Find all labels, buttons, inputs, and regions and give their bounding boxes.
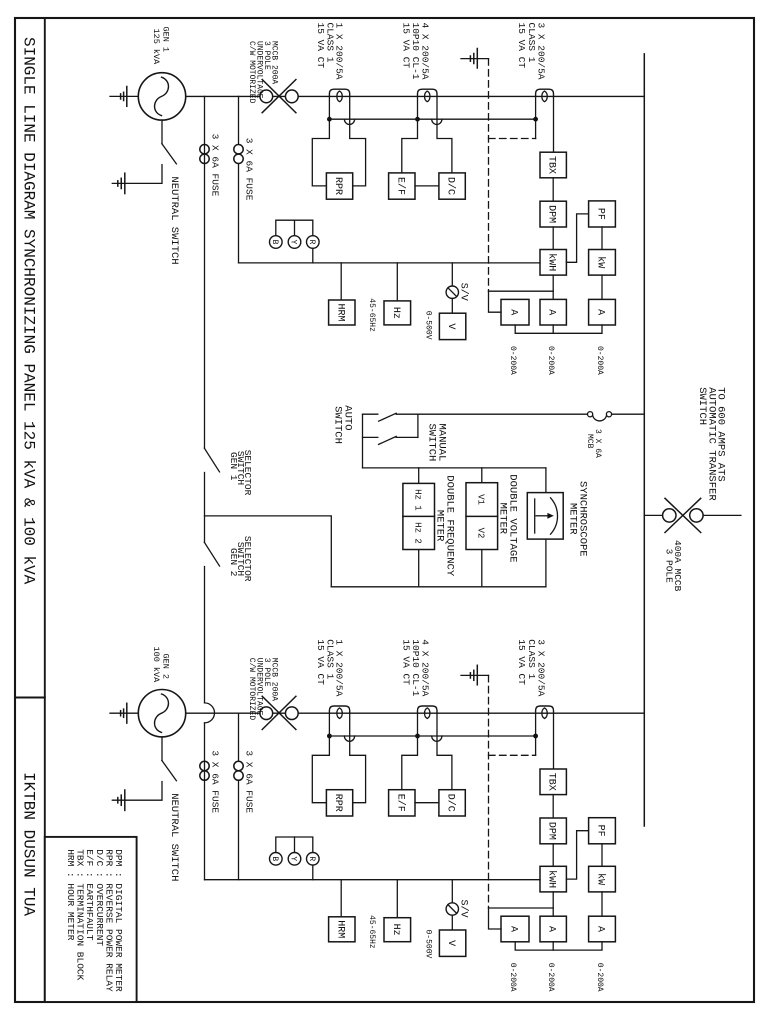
svg-text:SWITCH: SWITCH (696, 387, 708, 425)
ground (generator body earth) (126, 703, 128, 723)
svg-text:Hz: Hz (390, 924, 401, 936)
svg-text:3 X 6A FUSE: 3 X 6A FUSE (243, 750, 254, 813)
wire: synchroscope stems (545, 468, 547, 493)
wire: CT1 right secondary drop (350, 713, 366, 803)
double frequency meter (403, 483, 435, 549)
svg-text:3 X 6A FUSE: 3 X 6A FUSE (210, 134, 221, 197)
wire DPM-kWH (552, 844, 554, 867)
ground (metering earth, dashed link) (461, 674, 489, 676)
svg-text:15 VA CT: 15 VA CT (400, 639, 411, 685)
wire: generator main feeder (186, 95, 645, 97)
svg-text:PF: PF (595, 825, 606, 837)
svg-text:C/W MOTORIZED: C/W MOTORIZED (247, 41, 256, 104)
CT2 4X200/5A (GEN 1) (418, 89, 438, 96)
wire: CT2 left secondary drop (402, 96, 418, 172)
svg-text:0-200A: 0-200A (595, 346, 604, 375)
svg-text:0-200A: 0-200A (546, 963, 555, 992)
ground (neutral earth) (124, 790, 126, 810)
relay D/C (439, 173, 465, 199)
wire: dashed earth riser (488, 59, 490, 292)
wire: bus to 400A MCCB (644, 514, 662, 516)
lamp Y (288, 853, 301, 866)
auto switch contact (363, 413, 378, 415)
neutral switch blade (162, 760, 177, 780)
wire: ammeter common bus (515, 325, 602, 333)
double voltage meter (466, 483, 498, 550)
main bus (643, 54, 645, 826)
svg-text:IKTBN DUSUN TUA: IKTBN DUSUN TUA (19, 772, 37, 916)
relay RPR (326, 173, 352, 199)
wire: generator earth stem (110, 95, 138, 97)
meter kW (589, 866, 616, 892)
frequency meter Hz (396, 263, 398, 301)
svg-text:C/W MOTORIZED: C/W MOTORIZED (247, 658, 256, 721)
wire: sync bottom bus (331, 586, 546, 588)
wire: lamp feed (312, 865, 314, 880)
svg-text:Hz: Hz (390, 307, 401, 319)
svg-text:NEUTRAL SWITCH: NEUTRAL SWITCH (168, 793, 180, 881)
svg-text:METER: METER (434, 510, 446, 542)
wire: CT1 left secondary drop (312, 713, 329, 803)
svg-text:RPR: RPR (332, 794, 343, 812)
svg-text:D/C: D/C (445, 177, 457, 195)
generator GEN 2 circle (138, 690, 185, 737)
wire: generator earth stem (110, 712, 138, 714)
wire: dashed earth riser (488, 675, 490, 908)
wire: CT2 left secondary drop (402, 713, 418, 790)
neutral switch blade (162, 144, 177, 164)
svg-text:R: R (307, 240, 316, 245)
ammeter A1 (501, 916, 529, 942)
svg-text:PF: PF (595, 208, 606, 220)
svg-text:3 X 6A FUSE: 3 X 6A FUSE (210, 750, 221, 813)
svg-text:A: A (546, 926, 557, 932)
svg-text:V: V (445, 323, 456, 329)
wire: auto line to MCB (396, 413, 587, 415)
junction CT1 secondary (327, 734, 332, 739)
svg-text:125 kVA: 125 kVA (151, 29, 161, 66)
wire: neutral drop from generator (161, 120, 163, 144)
wire: manual jog (417, 414, 419, 437)
svg-text:DPM: DPM (546, 205, 557, 223)
wire: lamp header (276, 837, 313, 853)
wire: earth line to ammeters (489, 907, 554, 909)
svg-text:METER: METER (496, 503, 508, 535)
svg-text:0-200A: 0-200A (508, 963, 517, 992)
svg-text:D/C: D/C (445, 794, 457, 812)
svg-text:kWH: kWH (546, 870, 558, 888)
wire: lamp feed (312, 248, 314, 263)
wire: riser through GEN2 fuses (204, 723, 206, 880)
svg-text:A: A (508, 309, 519, 315)
wire TBX-DPM (552, 795, 554, 818)
wire: fused branch 2 (238, 713, 240, 880)
svg-text:V2: V2 (476, 528, 486, 539)
wire: sync top bus (363, 467, 546, 469)
wire: switch left leg (362, 414, 364, 468)
termination block TBX (540, 769, 566, 795)
wire kWH-A2 (552, 892, 554, 916)
fuse 3X6A (branch 2) (234, 145, 243, 154)
ammeter A1 (501, 299, 529, 325)
wire TBX-DPM (552, 178, 554, 201)
wire: CT secondary bus (329, 735, 535, 737)
wire kW-A3 (601, 892, 603, 916)
CT1 1X200/5A (GEN 2) (329, 706, 349, 713)
svg-text:R: R (307, 856, 316, 861)
CT1 1X200/5A (GEN 1) (329, 89, 349, 96)
selector switch GEN 1 blade (204, 448, 219, 472)
svg-text:S/V: S/V (458, 283, 470, 301)
meter DPM (540, 818, 566, 844)
CT2 4X200/5A (GEN 2) (418, 706, 438, 713)
wire: CT1 right secondary drop (350, 96, 366, 185)
svg-text:kWH: kWH (546, 253, 558, 271)
svg-text:A: A (546, 309, 557, 315)
svg-text:45-65Hz: 45-65Hz (367, 915, 376, 949)
synchroscope meter (527, 493, 563, 539)
relay D/C (439, 790, 465, 816)
lamp Y (288, 236, 301, 249)
wire: earth line to ammeters (489, 290, 554, 292)
svg-text:B: B (270, 240, 279, 245)
svg-text:E/F: E/F (394, 794, 406, 812)
breaker MCCB 200A (GEN 1) (260, 90, 273, 103)
svg-text:MCB: MCB (585, 434, 594, 449)
wire: DV meter stems (481, 468, 483, 483)
svg-text:V: V (445, 940, 456, 946)
junction CT2 secondary (415, 734, 420, 739)
ground (generator body earth) (126, 87, 128, 107)
svg-text:SWITCH: SWITCH (426, 424, 438, 462)
meter PF (589, 818, 616, 844)
wire: neutral switch to earth (112, 782, 162, 801)
relay E/F (389, 173, 415, 199)
svg-text:kW: kW (595, 873, 607, 885)
svg-text:0-200A: 0-200A (595, 963, 604, 992)
wire: selector riser down to GEN2 (204, 567, 206, 703)
svg-text:HRM: HRM (334, 920, 345, 938)
svg-text:45-65Hz: 45-65Hz (367, 298, 376, 332)
svg-text:B: B (270, 856, 279, 861)
svg-text:DPM: DPM (546, 822, 557, 840)
title strip line (44, 18, 46, 1002)
wire PF-kW (601, 227, 603, 250)
ammeter A3 (589, 916, 616, 942)
wire: DF meter stems (418, 468, 420, 484)
svg-text:S/V: S/V (458, 900, 470, 918)
svg-text:Hz 2: Hz 2 (413, 522, 423, 544)
wire: E/F to D/C link (415, 185, 439, 187)
svg-text:15 VA CT: 15 VA CT (315, 23, 326, 69)
voltmeter V (451, 915, 453, 930)
svg-text:3 POLE: 3 POLE (663, 549, 674, 584)
meter kW (589, 250, 616, 276)
ammeter A3 (589, 299, 616, 325)
meter DPM (540, 201, 566, 227)
breaker 400A MCCB 3 POLE (663, 509, 676, 522)
svg-text:Hz 1: Hz 1 (413, 489, 423, 511)
wire: CT3 left drop (535, 96, 537, 138)
svg-text:SINGLE LINE DIAGRAM SYNCHRONIZ: SINGLE LINE DIAGRAM SYNCHRONIZING PANEL … (19, 37, 37, 585)
selector switch S/V (451, 263, 453, 286)
svg-text:15 VA CT: 15 VA CT (516, 23, 527, 69)
wire: CT1 left secondary drop (312, 96, 329, 185)
junction CT1 secondary (327, 117, 332, 122)
fuse 3X6A (branch 1) (200, 761, 209, 770)
wire kW-A3 (601, 275, 603, 299)
CT3 3X200/5A (GEN 1) (536, 89, 554, 96)
meter kWH (540, 250, 566, 276)
wire PF-kW (601, 844, 603, 867)
svg-text:V1: V1 (476, 494, 486, 505)
svg-text:A: A (508, 926, 519, 932)
svg-text:TBX: TBX (546, 773, 557, 791)
legend box (45, 837, 137, 1002)
relay RPR (326, 790, 352, 816)
generator GEN 1 circle (138, 73, 185, 120)
svg-text:RPR: RPR (332, 177, 343, 195)
wire: MCB to bus (612, 413, 645, 415)
junction CT3 secondary (533, 117, 538, 122)
svg-text:100 kVA: 100 kVA (151, 647, 161, 684)
meter kWH (540, 866, 566, 892)
wire: CT3 to TBX (553, 96, 555, 152)
lamp R (307, 236, 320, 249)
svg-text:15 VA CT: 15 VA CT (516, 639, 527, 685)
wire: lamp header (276, 220, 313, 236)
wire DPM-kWH (552, 227, 554, 250)
wire: CT2 right secondary drop (437, 713, 452, 790)
wire: neutral drop from generator (161, 737, 163, 761)
wire: CT secondary bus (329, 118, 535, 120)
wire kWH-A2 (552, 275, 554, 299)
CT3 3X200/5A (GEN 2) (536, 706, 554, 713)
ammeter A2 (540, 916, 566, 942)
termination block TBX (540, 152, 566, 178)
wire: CT3 left drop (535, 713, 537, 755)
wire: CT3 to TBX (553, 713, 555, 769)
ground (metering earth, dashed link) (461, 58, 489, 60)
wire: dashed spur to CT3 drop (489, 138, 536, 140)
hour meter HRM (340, 263, 342, 300)
lamp B (270, 236, 283, 249)
svg-text:0-500V: 0-500V (424, 311, 433, 340)
wire: ammeter common bus (515, 942, 602, 950)
svg-text:A: A (595, 309, 606, 315)
wire: MCCB to ATS stub (703, 514, 741, 516)
svg-text:HRM : HOUR METER: HRM : HOUR METER (65, 849, 76, 941)
wire: selector tee to sync bus (205, 516, 332, 587)
title strip divider (15, 697, 45, 699)
junction CT2 secondary (415, 117, 420, 122)
svg-text:15 VA CT: 15 VA CT (400, 23, 411, 69)
svg-text:kW: kW (595, 256, 607, 268)
svg-text:3 X 6A FUSE: 3 X 6A FUSE (243, 138, 254, 201)
frequency meter Hz (396, 880, 398, 918)
svg-text:HRM: HRM (334, 303, 345, 321)
svg-text:Y: Y (289, 856, 298, 861)
selector switch S/V (451, 880, 453, 903)
wire: instrument bus (205, 879, 541, 881)
manual switch contact (363, 436, 378, 438)
svg-text:Y: Y (289, 240, 298, 245)
breaker MCCB 200A (GEN 2) (260, 707, 273, 720)
lamp B (270, 853, 283, 866)
svg-text:A: A (595, 926, 606, 932)
svg-text:TBX: TBX (546, 156, 557, 174)
wire hop over GEN2 feeder (205, 703, 215, 723)
junction CT3 secondary (533, 734, 538, 739)
wire kWH to PF (566, 214, 588, 262)
meter PF (589, 201, 616, 227)
wire: GEN1 fused riser to selector (204, 96, 206, 448)
wire: selector mid riser (204, 473, 206, 543)
wire: fused branch 2 (238, 96, 240, 263)
svg-text:0-500V: 0-500V (424, 930, 433, 959)
svg-text:0-200A: 0-200A (546, 346, 555, 375)
wire: generator main feeder (186, 712, 645, 714)
svg-text:NEUTRAL SWITCH: NEUTRAL SWITCH (168, 176, 180, 264)
svg-text:0-200A: 0-200A (508, 346, 517, 375)
svg-text:METER: METER (567, 503, 579, 535)
svg-text:15 VA CT: 15 VA CT (315, 639, 326, 685)
relay E/F (389, 790, 415, 816)
selector switch GEN 2 blade (204, 542, 219, 566)
svg-text:SWITCH: SWITCH (332, 406, 344, 444)
wire: instrument bus (239, 262, 541, 264)
lamp R (307, 853, 320, 866)
wire kWH to PF (566, 831, 588, 879)
ammeter A2 (540, 299, 566, 325)
MCB 3X6A (588, 412, 593, 417)
fuse 3X6A (branch 2) (234, 761, 243, 770)
fuse 3X6A (branch 1) (200, 145, 209, 154)
svg-text:GEN 1: GEN 1 (228, 452, 239, 481)
wire: neutral switch to earth (112, 165, 162, 184)
svg-text:E/F: E/F (394, 177, 406, 195)
wire: dashed spur to CT3 drop (489, 754, 536, 756)
wire: E/F to D/C link (415, 802, 439, 804)
ground (neutral earth) (124, 173, 126, 193)
svg-text:GEN 2: GEN 2 (228, 548, 239, 577)
wire: CT2 right secondary drop (437, 96, 452, 172)
voltmeter V (451, 298, 453, 313)
hour meter HRM (340, 880, 342, 917)
